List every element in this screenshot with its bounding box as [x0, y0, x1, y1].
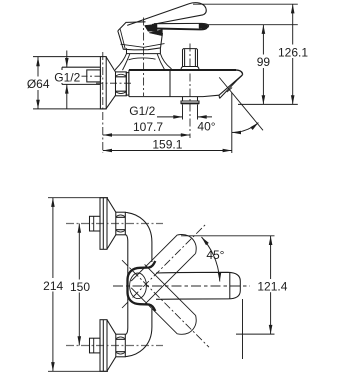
main horizontal axis: [113, 285, 250, 287]
pipe step lines: [93, 216, 95, 353]
dim Ø64 extension lines: [33, 57, 106, 109]
pipe thread stub: [87, 70, 101, 82]
skirt left: [116, 54, 130, 71]
lever blade tip fill: [199, 24, 208, 29]
valve body inner arc: [130, 273, 147, 299]
svg-text:G1/2: G1/2: [129, 104, 155, 118]
150: [78, 224, 82, 233]
centerline body axis: [96, 82, 132, 84]
dim 126.1 line: [292, 4, 294, 104]
dim G1/2 bottom ext lines: [183, 105, 198, 120]
214: [51, 198, 55, 207]
centerline pipe axis: [81, 75, 105, 77]
aerator cross mark: [227, 88, 232, 93]
ring: [126, 73, 129, 96]
spout tip extension: [231, 93, 233, 154]
right extension lines: [193, 4, 298, 104]
flange cone: [106, 57, 115, 109]
spout front: [156, 272, 240, 299]
svg-text:150: 150: [70, 280, 90, 294]
text knockouts: [27, 45, 311, 293]
spout drop line: [242, 299, 244, 359]
pipe top: [90, 216, 101, 231]
wall pipe G1/2: [62, 67, 100, 84]
spout end face: [219, 75, 243, 95]
skirt right: [157, 54, 172, 71]
handle cap: [118, 31, 163, 50]
cone top: [107, 198, 116, 249]
diverter knob: [181, 49, 199, 71]
cap left inner edge: [120, 29, 125, 49]
40 deg arc: [232, 123, 259, 133]
dim G1/2 left arrows: [66, 51, 68, 110]
121.4: [269, 236, 273, 245]
svg-text:159.1: 159.1: [152, 137, 182, 151]
45 deg arc: [202, 237, 220, 282]
svg-text:G1/2: G1/2: [54, 70, 80, 84]
dim 214 line: [52, 198, 54, 372]
dim 214 ext lines: [48, 198, 108, 372]
159.1: [103, 149, 112, 153]
lever junction wedge: [145, 24, 158, 31]
flange disc Ø64: [100, 57, 106, 109]
dim 121.4 ext lines: [181, 236, 275, 334]
shower outlet stub G1/2: [181, 97, 199, 104]
union axis bottom: [66, 345, 163, 347]
skirt dome edge: [129, 58, 156, 60]
G1/2 bottom: [173, 115, 182, 119]
dim 99 line: [262, 25, 264, 105]
handle axis up: [122, 224, 207, 309]
pipe bottom: [90, 338, 101, 353]
body joint line: [169, 70, 171, 97]
centerline diverter axis: [189, 44, 191, 139]
spout tip corner: [236, 70, 242, 75]
dim 150 line: [78, 224, 80, 346]
lever blade: [154, 23, 209, 28]
126.1: [291, 4, 295, 13]
svg-text:126.1: 126.1: [278, 45, 308, 59]
union axis top: [66, 223, 163, 225]
lever blade dark underedge: [156, 28, 207, 30]
flange disc top: [100, 198, 107, 250]
cap shadow wedge: [149, 30, 162, 36]
dim G1/2 bottom line: [157, 116, 212, 118]
faucet body: [129, 70, 219, 97]
svg-text:40°: 40°: [197, 120, 215, 134]
svg-text:107.7: 107.7: [133, 120, 163, 134]
flange disc bottom: [100, 320, 107, 372]
svg-text:45°: 45°: [206, 248, 224, 262]
neck ring: [127, 48, 161, 53]
hex nut bottom: [116, 334, 126, 357]
aerator band: [219, 75, 242, 98]
flange disc bottom inner line: [102, 320, 104, 372]
99: [262, 25, 266, 34]
svg-text:99: 99: [257, 55, 271, 69]
107.7: [103, 133, 112, 137]
centerline flange vertical: [102, 52, 104, 153]
lever handle top line: [127, 4, 189, 26]
dim Ø64 line: [37, 57, 39, 109]
lever underside: [152, 15, 203, 25]
handle up edges: [131, 235, 195, 304]
flange disc top inner line: [102, 198, 104, 250]
cap top bevel: [118, 22, 146, 31]
handle down cap: [177, 315, 196, 334]
45 deg arc arrows: [200, 236, 209, 245]
lever tip loop: [189, 3, 206, 15]
centerline cartridge axis: [143, 18, 145, 97]
G1/2 left: [65, 58, 69, 67]
cap bottom V: [121, 44, 165, 48]
cone bottom: [107, 320, 116, 371]
Ø64: [36, 57, 40, 66]
dim 159.1 line: [103, 150, 232, 152]
elbow bottom: [126, 286, 152, 357]
dim 107.7 line: [103, 134, 190, 136]
handle down edges: [131, 264, 195, 333]
spout cap line: [229, 272, 231, 299]
hex nut top: [116, 212, 126, 235]
body top edge: [129, 69, 236, 71]
40 deg arc arrows: [232, 131, 241, 135]
hex nut: [116, 72, 127, 96]
svg-text:121.4: 121.4: [257, 280, 287, 294]
aerator axis 40 deg: [219, 77, 263, 130]
svg-text:Ø64: Ø64: [27, 77, 50, 91]
svg-text:214: 214: [43, 279, 63, 293]
handle up cap: [177, 235, 196, 254]
valve body blob: [128, 261, 156, 311]
elbow top: [126, 212, 152, 286]
handle axis down: [122, 260, 209, 347]
arrowheads: [36, 4, 294, 371]
dim 121.4 line: [270, 236, 272, 334]
